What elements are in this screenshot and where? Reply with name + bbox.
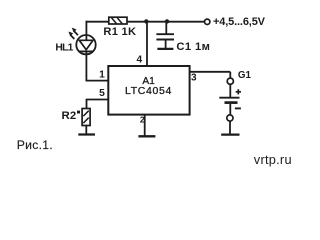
ground for R2	[78, 133, 95, 135]
wire pin5 horizontal	[86, 99, 109, 101]
svg-text:+4,5...6,5V: +4,5...6,5V	[213, 16, 266, 28]
wire pin4 vertical	[146, 21, 148, 66]
wire pin2 vertical	[144, 115, 146, 136]
wire pin3 down to G1 terminal	[229, 72, 231, 78]
plus sign	[236, 89, 241, 94]
node junction dot B (C1 branch)	[165, 19, 169, 23]
svg-text:2: 2	[140, 115, 145, 125]
capacitor C1	[156, 21, 174, 48]
resistor R1	[109, 17, 127, 24]
svg-text:C1 1м: C1 1м	[176, 41, 210, 53]
wire top rail right segment	[127, 21, 205, 23]
wire LED branch down from rail	[85, 21, 87, 36]
op-amp/IC A1 LTC4054	[108, 66, 189, 115]
wire top rail left segment	[86, 21, 110, 23]
svg-text:Рис.1.: Рис.1.	[17, 138, 53, 152]
wire bottom terminal to ground	[229, 121, 231, 134]
resistor R2	[82, 109, 90, 126]
minus sign	[235, 107, 241, 109]
label R2*	[62, 110, 81, 122]
wire R2 to ground	[85, 126, 87, 135]
ground for C1	[157, 48, 173, 50]
wire LED to pin1 vertical	[85, 55, 87, 81]
LED HL1	[76, 35, 95, 55]
battery G1 minus plate	[225, 101, 238, 104]
svg-text:HL1: HL1	[55, 42, 73, 53]
LED arrow 2	[72, 28, 78, 36]
svg-text:R1 1K: R1 1K	[103, 26, 136, 38]
svg-text:G1: G1	[238, 70, 252, 81]
svg-text:LTC4054: LTC4054	[125, 85, 172, 97]
wire terminal to battery plus	[229, 84, 231, 97]
terminal G1 bottom circle	[227, 115, 233, 121]
svg-text:1: 1	[99, 69, 105, 80]
ground for G1	[221, 134, 239, 136]
terminal G1 top circle	[227, 78, 233, 84]
wire pin3 horizontal	[190, 71, 231, 73]
svg-text:3: 3	[191, 73, 197, 84]
svg-text:4: 4	[137, 55, 143, 66]
LED arrow 1	[68, 32, 74, 40]
ground for pin2	[138, 135, 155, 137]
terminal +V circle	[205, 19, 210, 24]
battery G1 plus plate	[219, 97, 239, 99]
svg-text:5: 5	[99, 88, 105, 99]
node junction dot A (pin4 branch)	[144, 19, 148, 23]
wire pin1 horizontal	[86, 80, 109, 82]
svg-text:vrtp.ru: vrtp.ru	[254, 152, 292, 167]
wire battery to bottom terminal	[229, 104, 231, 115]
svg-text:R2: R2	[62, 110, 77, 122]
wire pin5 to R2 vertical	[86, 100, 88, 109]
